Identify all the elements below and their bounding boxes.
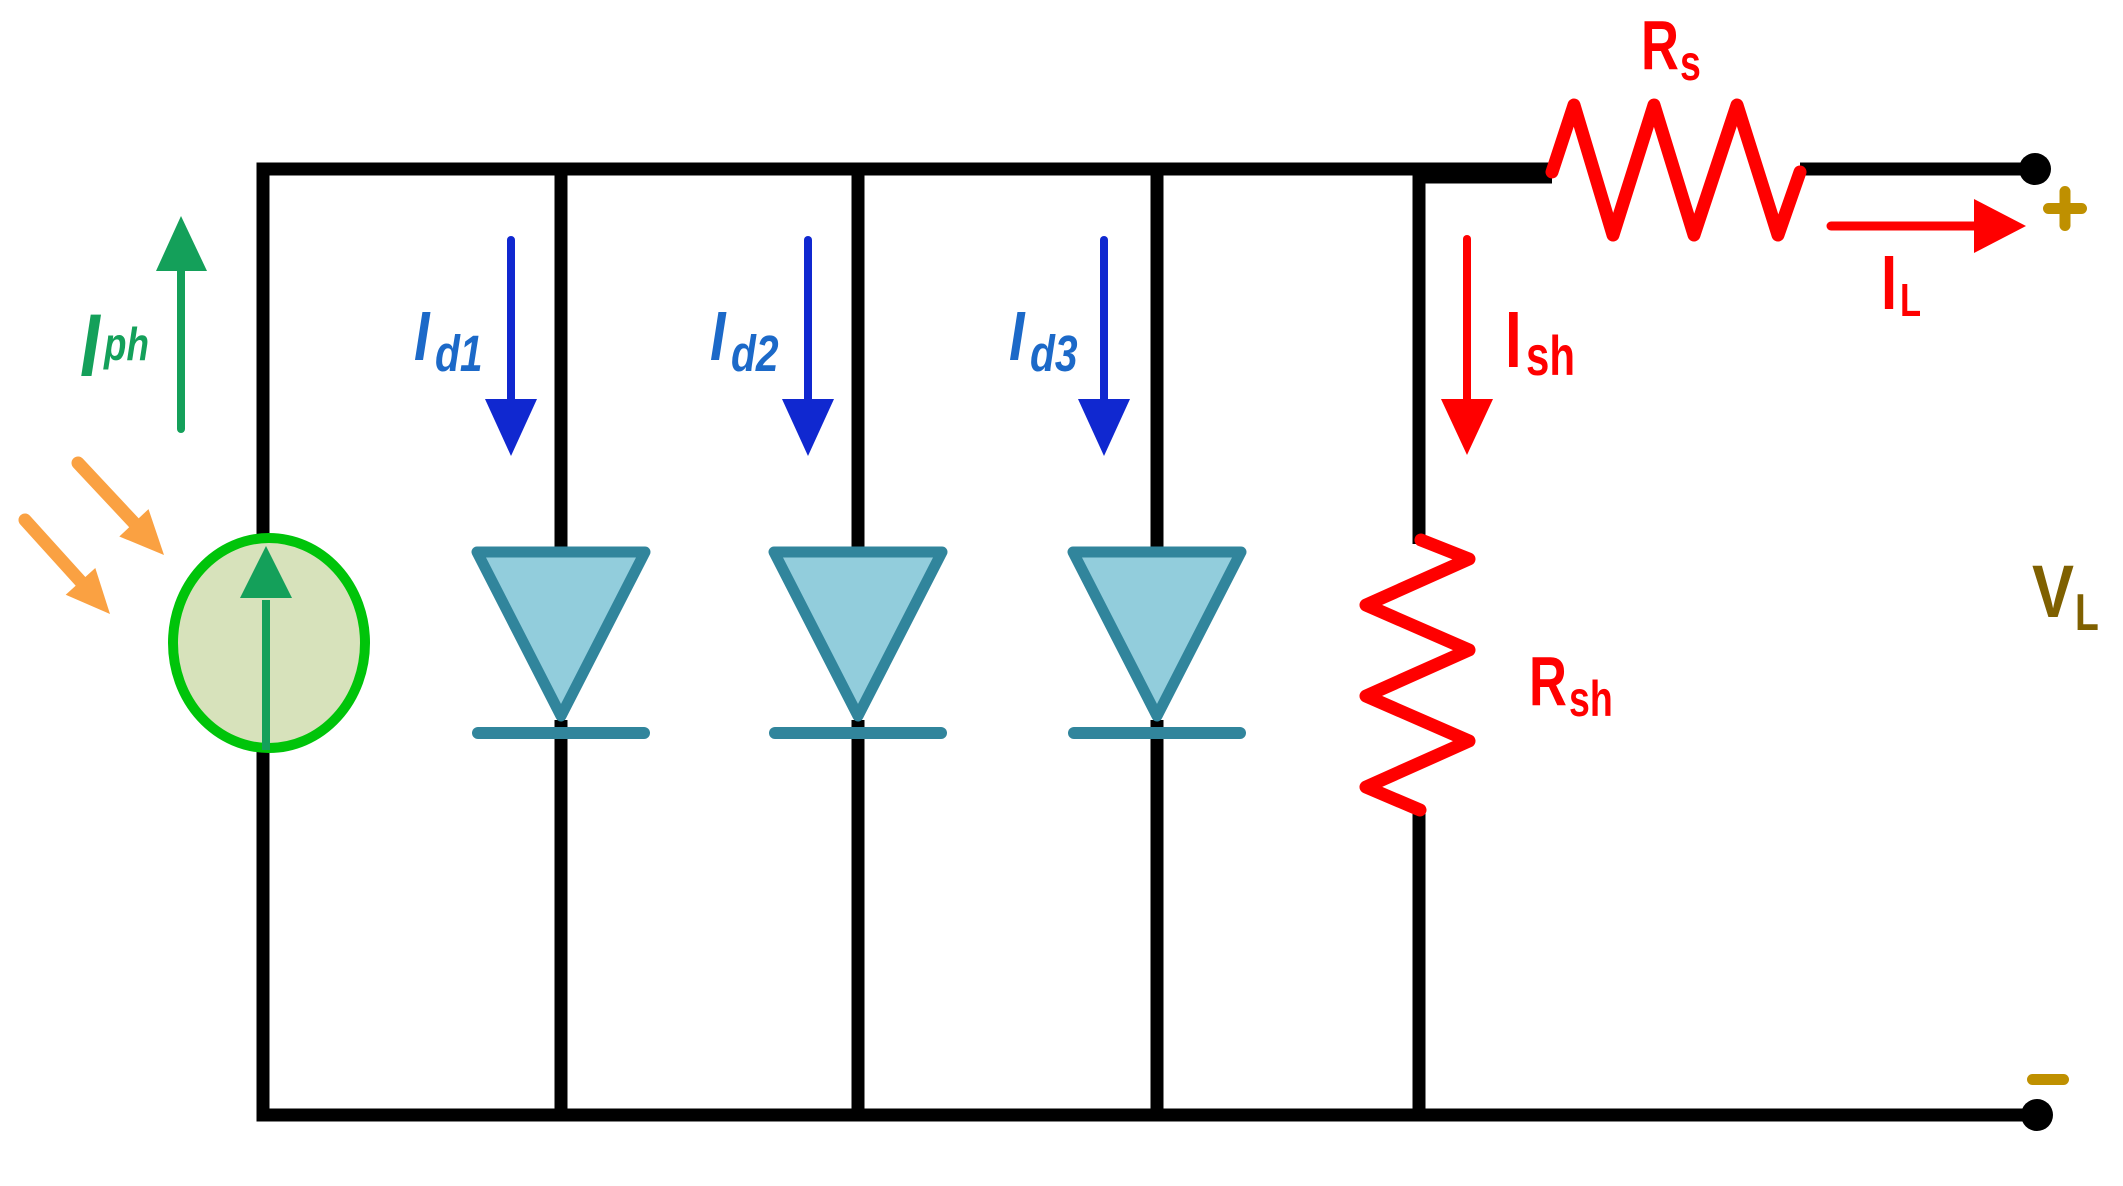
svg-text:I: I bbox=[80, 296, 101, 395]
wire bottom bus bbox=[257, 1109, 2038, 1122]
minus terminal symbol bbox=[2033, 1074, 2064, 1085]
svg-text:I: I bbox=[1881, 240, 1897, 326]
arrow Ish (red down) bbox=[1441, 239, 1493, 455]
node negative terminal dot bbox=[2021, 1099, 2053, 1131]
svg-text:V: V bbox=[2032, 550, 2074, 633]
label Ish bbox=[1505, 295, 1575, 388]
label Id1 bbox=[414, 298, 483, 382]
label Rsh bbox=[1529, 643, 1613, 728]
wire shunt branch bbox=[1413, 169, 1426, 1115]
wire left lower bbox=[257, 748, 270, 1115]
resistor Rs (series, horizontal zigzag) bbox=[1552, 105, 1800, 235]
wire top right to positive terminal bbox=[1800, 163, 2035, 176]
wire diode D2 branch bbox=[852, 169, 865, 1115]
diode D3 bbox=[1073, 552, 1241, 733]
svg-text:s: s bbox=[1680, 36, 1701, 91]
diode D2 bbox=[774, 552, 942, 733]
svg-text:I: I bbox=[710, 298, 727, 375]
arrow Id3 (blue down) bbox=[1078, 240, 1130, 456]
label Rs bbox=[1641, 7, 1701, 92]
svg-text:R: R bbox=[1529, 643, 1567, 721]
resistor Rsh (shunt, vertical zigzag) bbox=[1366, 540, 1469, 810]
svg-text:L: L bbox=[1900, 274, 1921, 326]
wire diode D3 branch bbox=[1151, 169, 1164, 1115]
current source Iph circle bbox=[173, 538, 365, 750]
plus terminal symbol bbox=[2049, 192, 2082, 226]
wire diode D1 branch bbox=[555, 169, 568, 1115]
svg-text:L: L bbox=[2075, 582, 2099, 641]
arrow Id1 (blue down) bbox=[485, 240, 537, 456]
wire seam segment (shunt node to Rs) bbox=[1419, 171, 1552, 184]
svg-text:d2: d2 bbox=[731, 325, 779, 382]
label Id3 bbox=[1009, 298, 1078, 382]
label Iph bbox=[80, 296, 149, 395]
svg-text:d1: d1 bbox=[435, 325, 483, 382]
diode D1 bbox=[477, 552, 645, 733]
label VL bbox=[2032, 550, 2099, 641]
svg-text:d3: d3 bbox=[1030, 325, 1078, 382]
arrow sun ray 1 (orange) bbox=[78, 463, 164, 555]
arrow Iph (green up) bbox=[156, 216, 207, 429]
arrow IL (red right) bbox=[1831, 199, 2026, 253]
svg-text:R: R bbox=[1641, 7, 1679, 85]
node positive terminal dot bbox=[2019, 153, 2051, 185]
wire top bus bbox=[257, 163, 1553, 545]
svg-text:ph: ph bbox=[103, 318, 149, 370]
svg-text:I: I bbox=[1009, 298, 1026, 375]
label IL bbox=[1881, 240, 1921, 326]
label Id2 bbox=[710, 298, 779, 382]
svg-text:I: I bbox=[1505, 295, 1522, 384]
arrow sun ray 2 (orange) bbox=[25, 520, 110, 614]
svg-text:sh: sh bbox=[1526, 325, 1575, 387]
arrow Id2 (blue down) bbox=[782, 240, 834, 456]
svg-text:I: I bbox=[414, 298, 431, 375]
svg-text:sh: sh bbox=[1569, 672, 1613, 727]
